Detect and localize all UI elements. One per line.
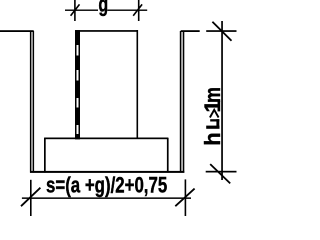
label h>=1m (rotated): glyph >= equals arm — [210, 119, 219, 121]
right trench wall inner line — [180, 31, 182, 171]
dimension s: line — [22, 197, 191, 199]
chimney stem top line — [75, 30, 138, 32]
dimension g: right tick slash — [133, 4, 142, 15]
dimension g: right extension line — [138, 0, 140, 21]
dimension h: top tick line — [206, 30, 236, 32]
label h>=1m (rotated): glyph >= underline bar — [206, 126, 219, 129]
right trench wall top line — [181, 30, 200, 32]
svg-text:s=(a +g)/2+0,75: s=(a +g)/2+0,75 — [46, 173, 167, 198]
dimension s: left tick slash — [21, 188, 40, 207]
right trench wall outer line — [183, 31, 185, 171]
svg-text:h: h — [200, 132, 225, 145]
footing right edge — [167, 138, 169, 173]
chimney stem right edge — [137, 30, 139, 139]
trench floor line — [30, 171, 184, 173]
stem axis dash 3 — [76, 81, 78, 99]
left trench wall inner line — [33, 31, 35, 173]
dimension s: right tick slash — [175, 189, 194, 207]
left trench wall outer line — [30, 31, 32, 173]
footing top line — [44, 138, 168, 140]
dimension h: top tick slash — [212, 22, 231, 41]
stem axis dash 1 — [76, 30, 78, 45]
label s=(a+g)/2+0,75 — [46, 173, 167, 198]
dimension g: left extension line — [74, 0, 76, 21]
stem axis dash 2 — [76, 56, 78, 71]
label g — [98, 0, 108, 17]
svg-text:1: 1 — [200, 100, 225, 112]
dimension g: line left segment — [65, 10, 98, 11]
dimension s: left extension line — [30, 180, 32, 216]
dimension h: vertical line — [221, 21, 223, 180]
dimension g: left tick slash — [71, 4, 80, 15]
label h>=1m (rotated): glyph >= equals spine — [216, 119, 219, 127]
left trench wall top line — [0, 30, 34, 32]
svg-text:g: g — [98, 0, 108, 17]
label h>=1m (rotated): glyph >= chevron — [210, 110, 219, 118]
dimension h: bottom tick slash — [210, 164, 230, 183]
chimney stem left edge outer thin line — [75, 30, 77, 139]
footing left edge — [44, 138, 46, 173]
dimension g: line right segment — [107, 10, 147, 11]
dimension s: right extension line — [185, 179, 187, 216]
stem axis dash 5 — [76, 134, 78, 139]
chimney stem left edge inner thin line — [79, 30, 81, 139]
dimension h: bottom tick line — [206, 171, 237, 173]
stem axis dash 4 — [76, 108, 78, 126]
